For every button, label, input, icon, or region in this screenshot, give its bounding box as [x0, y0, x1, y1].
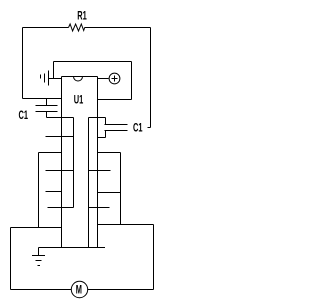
IC U1 right edge	[97, 77, 99, 248]
wire U1 right pin stub y170	[89, 170, 111, 172]
wire right y152	[98, 152, 121, 154]
bottom box left edge	[10, 228, 12, 290]
wire top-right vertical (dead end)	[150, 28, 152, 128]
IC U1 top edge	[62, 76, 98, 78]
capacitor C1 left bottom lead	[46, 112, 48, 118]
wire U1 left pin y207	[48, 207, 74, 209]
svg-text:M: M	[76, 284, 82, 297]
svg-text:R1: R1	[77, 10, 87, 23]
wire right pin row y117	[89, 117, 106, 119]
wire vertical x73	[73, 118, 75, 208]
wire left rail vertical	[22, 28, 24, 99]
upper box right edge	[131, 62, 133, 100]
wire U1 left pin stub y170	[46, 170, 74, 172]
capacitor C1 right top lead	[105, 118, 107, 125]
wire top horizontal right of R1	[85, 27, 151, 29]
capacitor C1 left top lead	[46, 99, 48, 106]
wire vertical x88	[88, 118, 90, 248]
IC U1 left edge	[61, 77, 63, 248]
motor M (circle with M)	[71, 281, 87, 297]
bottom box right edge	[153, 225, 155, 290]
svg-text:C1: C1	[133, 122, 143, 135]
wire ground net y247	[39, 247, 106, 249]
wire top horizontal left of R1	[23, 27, 69, 29]
resistor R1	[69, 24, 85, 31]
upper box left lead vertical	[53, 62, 55, 79]
IC U1 notch	[74, 77, 83, 82]
ground GND2 bars	[32, 255, 45, 257]
wire U1 right pin stub y207	[89, 207, 110, 209]
wire right y192	[98, 192, 121, 194]
wire U1 left pin stub y191	[46, 191, 62, 193]
svg-text:U1: U1	[74, 94, 84, 107]
svg-text:C1: C1	[19, 110, 29, 123]
ground GND2 lead	[38, 248, 40, 256]
upper box top edge	[54, 61, 132, 63]
wire U1 left pin stub y136	[46, 136, 74, 138]
wire right cap bottom to IC	[98, 137, 106, 139]
wire vertical x120	[120, 153, 122, 225]
capacitor C1 right plates	[105, 124, 128, 126]
power terminal + (circle with plus) on U1 right pin	[98, 78, 109, 80]
bottom box bottom edge left	[11, 289, 72, 291]
wire U1 left pin y152	[39, 152, 62, 154]
wire vertical x38	[38, 153, 40, 228]
bottom box top left edge	[11, 227, 62, 229]
capacitor C1 right bottom lead	[105, 131, 107, 138]
wire cap to pin row y117	[47, 117, 74, 119]
ground GND1 (rotated left, three bars)	[40, 75, 42, 79]
wire U1 left pin row y98 to left rail	[23, 98, 62, 100]
wire ground lead to U1 pin	[49, 78, 62, 80]
capacitor C1 left plates	[36, 105, 58, 107]
bottom box top right edge	[98, 224, 154, 226]
bottom box bottom edge right	[88, 289, 154, 291]
upper box bottom edge	[98, 99, 132, 101]
